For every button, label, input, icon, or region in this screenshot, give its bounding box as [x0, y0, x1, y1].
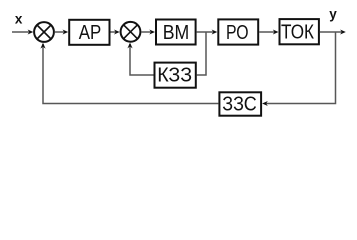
- wire output tap down to feedback line: [262, 32, 335, 106]
- block TOK: [280, 19, 319, 44]
- summing junction S2: [121, 22, 141, 42]
- svg-text:АР: АР: [79, 22, 102, 44]
- svg-text:ЗЗС: ЗЗС: [222, 94, 257, 116]
- svg-text:y: y: [329, 6, 337, 21]
- svg-text:x: x: [15, 12, 23, 27]
- wire AP to S2: [111, 30, 120, 35]
- block AP: [69, 20, 109, 45]
- wire tap T1 down and into KZZ: [197, 32, 206, 75]
- wire S1 to AP: [55, 30, 69, 35]
- wire KZZ to summer S2: [127, 43, 153, 75]
- svg-text:ТОК: ТОК: [281, 22, 314, 44]
- block KZZ: [155, 63, 196, 88]
- wire RO to TOK: [259, 30, 278, 35]
- summing junction S1: [34, 22, 54, 42]
- block VM: [156, 20, 196, 45]
- block ZZS: [219, 92, 261, 115]
- svg-text:ВМ: ВМ: [163, 22, 190, 44]
- svg-text:КЗЗ: КЗЗ: [157, 65, 192, 87]
- block RO: [218, 19, 258, 44]
- svg-text:РО: РО: [226, 22, 249, 44]
- wire S2 to VM: [141, 30, 155, 35]
- wire VM to RO with tap node T1: [197, 30, 218, 35]
- wire ZZS to summer S1: [40, 43, 218, 104]
- node y output label: [329, 6, 337, 21]
- node x input label: [15, 12, 23, 27]
- wire input to summer S1: [12, 30, 33, 35]
- wire TOK to output y: [320, 30, 346, 35]
